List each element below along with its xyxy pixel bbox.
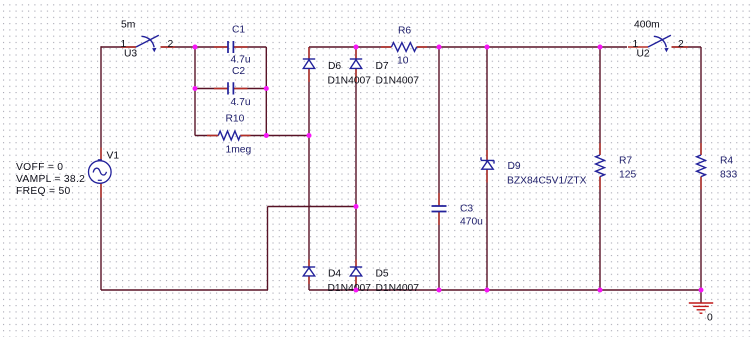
svg-text:V1: V1	[107, 151, 120, 162]
wire top rail segment to U3 pin1	[101, 46, 136, 48]
resistor R6	[391, 43, 416, 52]
svg-text:U3: U3	[124, 48, 137, 59]
D4 pin leads	[308, 260, 310, 285]
svg-text:R4: R4	[720, 156, 733, 167]
capacitor C2	[228, 82, 233, 94]
R6 pin leads	[381, 46, 427, 48]
svg-text:D5: D5	[376, 269, 389, 280]
capacitor C1	[228, 41, 233, 53]
capacitor C3	[432, 206, 447, 212]
wire bridge branch x=309	[308, 47, 310, 290]
wire tap riser x=268	[267, 207, 269, 291]
svg-text:2: 2	[168, 39, 174, 50]
U2 pin leads	[628, 46, 688, 48]
svg-text:833: 833	[720, 169, 737, 180]
wire ground rail	[309, 289, 701, 291]
svg-text:D6: D6	[328, 61, 341, 72]
svg-text:4.7u: 4.7u	[231, 97, 251, 108]
diode D4	[303, 267, 315, 276]
C3 pin leads	[438, 193, 440, 225]
svg-text:2: 2	[678, 39, 684, 50]
svg-text:D7: D7	[376, 61, 389, 72]
svg-text:U2: U2	[637, 48, 650, 59]
ground stem	[700, 290, 702, 303]
ground symbol	[689, 303, 713, 313]
svg-text:R10: R10	[226, 113, 245, 124]
svg-text:0: 0	[707, 313, 713, 324]
svg-text:VOFF = 0: VOFF = 0	[16, 162, 63, 173]
diode D6	[303, 59, 315, 68]
switch U2	[648, 35, 671, 47]
svg-text:D1N4007: D1N4007	[328, 76, 372, 87]
wire left branch vertical x=101	[100, 46, 102, 290]
wire top rail D6 corner to U2 pin1	[309, 46, 627, 48]
wire bottom left return	[101, 289, 268, 291]
R10 pin leads	[207, 135, 251, 137]
R7 pin leads	[599, 143, 601, 190]
V1 pin leads	[100, 148, 102, 198]
svg-text:1meg: 1meg	[226, 145, 252, 156]
wire center tap row	[268, 206, 357, 208]
svg-text:D9: D9	[508, 161, 521, 172]
wire D9 branch x=487	[486, 47, 488, 290]
D9 pin leads	[486, 150, 488, 183]
R4 pin leads	[700, 143, 702, 190]
source V1	[89, 160, 112, 184]
wire R7 branch x=599.5	[599, 47, 601, 290]
svg-text:C1: C1	[232, 25, 245, 36]
resistor R10	[218, 131, 240, 140]
switch U3	[136, 35, 159, 47]
resistor R4	[697, 155, 706, 177]
svg-text:BZX84C5V1/ZTX: BZX84C5V1/ZTX	[507, 176, 587, 187]
diode D5	[350, 267, 362, 276]
svg-text:400m: 400m	[634, 20, 660, 31]
svg-text:D1N4007: D1N4007	[328, 283, 372, 294]
svg-text:470u: 470u	[460, 217, 483, 228]
wire top rail U2 pin2 to R4 corner	[672, 46, 702, 48]
D5 pin leads	[355, 260, 357, 285]
wire top rail U3 pin2 to C1 corner	[161, 46, 267, 48]
svg-text:5m: 5m	[121, 20, 135, 31]
svg-text:125: 125	[619, 169, 636, 180]
wire R4 branch x=701	[700, 47, 702, 290]
zener diode D9	[481, 157, 494, 169]
wire C2 row	[195, 88, 266, 90]
D6 pin leads	[308, 48, 310, 83]
pin leads (red)	[101, 47, 701, 284]
wire branch x=195	[194, 47, 196, 136]
svg-text:D4: D4	[328, 269, 341, 280]
svg-text:D1N4007: D1N4007	[376, 76, 420, 87]
svg-text:VAMPL = 38.2: VAMPL = 38.2	[16, 174, 85, 185]
svg-text:R7: R7	[619, 156, 632, 167]
D7 pin leads	[355, 48, 357, 83]
svg-text:D1N4007: D1N4007	[376, 283, 420, 294]
svg-text:C2: C2	[232, 66, 245, 77]
wire C3 branch x=439	[438, 47, 440, 290]
C1 pin leads	[214, 46, 248, 48]
wire branch x=266	[265, 47, 267, 136]
U3 pin leads	[121, 46, 175, 48]
wire R10 row	[195, 135, 309, 137]
resistor R7	[596, 155, 605, 177]
diode D7	[350, 59, 362, 68]
svg-text:R6: R6	[398, 26, 411, 37]
switch U2 arrowhead	[664, 48, 668, 52]
svg-text:C3: C3	[460, 204, 473, 215]
switch U3 arrowhead	[152, 48, 156, 52]
wire bridge branch x=356	[355, 47, 357, 290]
svg-text:4.7u: 4.7u	[231, 55, 251, 66]
C2 pin leads	[214, 88, 248, 90]
svg-text:10: 10	[397, 56, 409, 67]
svg-text:FREQ = 50: FREQ = 50	[16, 186, 71, 197]
